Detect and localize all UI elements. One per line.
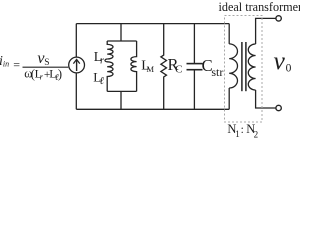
- svg-text:C: C: [175, 63, 182, 75]
- current source I1 circle: [69, 57, 85, 73]
- wire stem bottom of L sub-loop: [120, 91, 122, 109]
- svg-text:in: in: [3, 60, 9, 69]
- wire bottom rail: [76, 108, 229, 110]
- capacitor Cstr plates: [187, 63, 203, 65]
- svg-text:ℓ: ℓ: [100, 76, 105, 87]
- transformer T1 primary lead bottom: [228, 88, 230, 109]
- transformer T1 primary winding: [229, 44, 237, 88]
- transformer T1 secondary winding: [248, 44, 255, 90]
- inductor Lr: [107, 41, 113, 59]
- svg-text:0: 0: [286, 63, 292, 75]
- current source I1 arrow: [76, 60, 78, 71]
- svg-text::: :: [241, 124, 244, 136]
- capacitor Cstr top lead: [193, 24, 195, 64]
- svg-text:1: 1: [235, 129, 240, 139]
- terminal bottom-right: [276, 105, 281, 110]
- wire left rail upper: [75, 24, 77, 58]
- inductor LM: [131, 41, 137, 91]
- wire left rail lower: [75, 73, 77, 109]
- wire stem top of L sub-loop: [120, 24, 122, 41]
- transformer T1 primary lead top: [228, 24, 230, 44]
- svg-text:r: r: [100, 55, 104, 66]
- fraction bar: [23, 66, 69, 68]
- svg-text:v: v: [274, 46, 286, 75]
- wire secondary top to terminal: [256, 18, 276, 44]
- svg-text:ideal transformer: ideal transformer: [219, 0, 301, 14]
- transformer T1 core: [241, 42, 243, 91]
- resistor RC: [161, 24, 167, 110]
- dashed box ideal transformer: [225, 16, 263, 123]
- svg-text:2: 2: [254, 130, 259, 140]
- wire top rail: [76, 23, 229, 25]
- svg-text:M: M: [147, 64, 155, 74]
- terminal top-right: [276, 16, 281, 21]
- inductor Lell: [105, 59, 113, 91]
- svg-text:=: =: [13, 58, 20, 72]
- svg-text:): ): [58, 67, 62, 81]
- wire sub-loop bottom bar: [107, 90, 136, 92]
- capacitor Cstr bottom lead: [193, 70, 195, 109]
- svg-text:str: str: [211, 65, 223, 79]
- wire sub-loop top bar: [107, 40, 136, 42]
- wire secondary bottom to terminal: [256, 90, 276, 108]
